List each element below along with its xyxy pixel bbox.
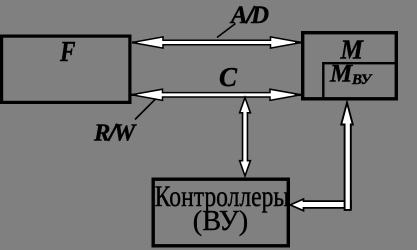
svg-text:М: М	[329, 61, 353, 88]
svg-text:R: R	[93, 120, 110, 147]
svg-text:(ВУ): (ВУ)	[193, 206, 248, 237]
svg-text:F: F	[59, 36, 75, 68]
svg-text:D: D	[250, 2, 269, 29]
svg-text:ВУ: ВУ	[351, 72, 373, 88]
svg-text:C: C	[219, 62, 238, 92]
svg-text:A: A	[229, 2, 248, 29]
